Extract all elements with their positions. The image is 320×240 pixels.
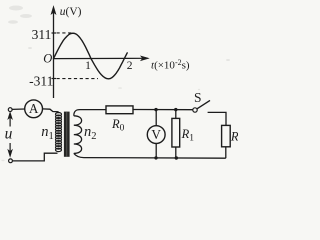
wire bottom rail <box>74 153 226 158</box>
source arrow up <box>8 112 12 126</box>
sine curve <box>54 33 128 79</box>
wire terminal to ammeter <box>12 108 25 110</box>
svg-text:2: 2 <box>127 60 133 72</box>
wire R1 branch top <box>175 110 177 119</box>
node R1 bottom <box>175 156 178 159</box>
svg-text:A: A <box>29 101 39 116</box>
wire ammeter to primary coil <box>43 109 59 113</box>
svg-text:-311: -311 <box>29 73 53 88</box>
wire secondary top <box>74 110 106 116</box>
resistor R1 <box>172 118 180 147</box>
node V top <box>154 108 157 111</box>
scan speckles <box>1 6 230 162</box>
wire R1 branch bottom <box>175 147 177 158</box>
switch S contact and lever <box>193 100 210 112</box>
svg-text:S: S <box>194 90 202 105</box>
svg-text:1: 1 <box>85 60 91 72</box>
wire voltmeter branch bottom <box>155 144 157 158</box>
tick -311 <box>52 78 57 80</box>
svg-text:O: O <box>43 52 52 66</box>
dashed level +311 <box>57 32 72 34</box>
voltmeter V <box>147 126 165 144</box>
node R1 top <box>174 108 177 111</box>
x-axis <box>54 56 149 61</box>
wire R2 bottom <box>225 147 227 158</box>
svg-text:t(×10-2s): t(×10-2s) <box>151 58 190 71</box>
svg-text:u: u <box>5 126 13 143</box>
ammeter A <box>25 100 43 118</box>
svg-text:u(V): u(V) <box>60 6 82 18</box>
svg-text:311: 311 <box>32 27 52 42</box>
dashed level -311 <box>57 78 99 80</box>
terminal bottom-left <box>9 159 13 163</box>
terminal top-left <box>8 108 12 112</box>
transformer secondary coil n2 <box>74 116 82 154</box>
y-axis <box>51 6 56 98</box>
wire primary bottom <box>13 153 58 161</box>
svg-text:V: V <box>151 127 161 142</box>
transformer primary coil n1 <box>56 113 62 152</box>
wire switch to R2 <box>208 112 226 125</box>
wire voltmeter branch top <box>155 110 157 126</box>
resistor R2 <box>222 125 231 146</box>
node V bottom <box>154 156 157 159</box>
source arrow down <box>8 143 12 157</box>
tick +311 <box>52 32 57 34</box>
transformer core <box>64 112 70 157</box>
resistor R0 <box>106 106 133 114</box>
wire top rail R0 to switch <box>133 109 193 111</box>
